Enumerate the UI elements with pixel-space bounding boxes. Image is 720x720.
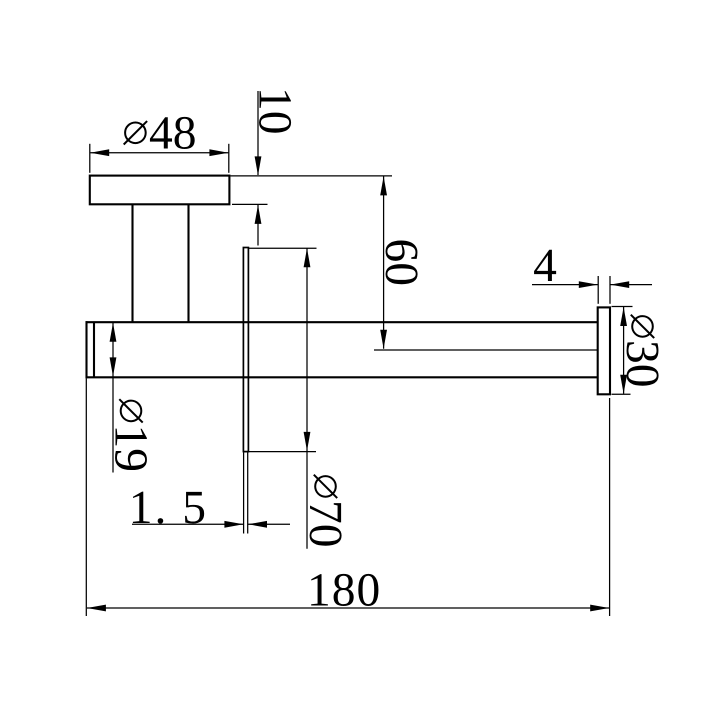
dimension 10 label (249, 87, 301, 135)
bar centerline (374, 349, 598, 351)
dimension O70 label (299, 475, 351, 548)
dimension 60 arrowheads (380, 176, 387, 348)
end cap (O30) (598, 307, 610, 394)
mounting stem (133, 205, 189, 322)
dimension O30 label (616, 315, 668, 388)
dimension 10 arrowheads (255, 156, 262, 224)
svg-text:180: 180 (307, 565, 381, 617)
middle disc (flange plate O70) (243, 248, 248, 452)
extension line from flange top (231, 175, 393, 177)
dimension 1.5 arrowheads (224, 521, 267, 528)
svg-text:48: 48 (149, 107, 197, 159)
svg-text:1. 5: 1. 5 (129, 482, 208, 534)
dimension 60 label (375, 239, 427, 287)
wall flange (top plate) outline (90, 176, 230, 205)
dimension O19 arrowheads (110, 323, 117, 377)
dimension 180 lines (86, 379, 609, 617)
dimension O70 arrowheads (304, 248, 311, 451)
dimension O48 lines (90, 144, 229, 173)
svg-text:60: 60 (375, 239, 427, 287)
dimension O30 lines (612, 307, 633, 395)
svg-text:4: 4 (533, 240, 557, 292)
dimension O48 arrowheads (90, 149, 228, 156)
dimension 60 line (383, 176, 385, 348)
dimension O48 label (124, 107, 197, 159)
dimension O30 arrowheads (620, 307, 627, 394)
dimension O70 lines (244, 248, 317, 549)
svg-text:10: 10 (249, 87, 301, 135)
dimension O19 label (105, 399, 157, 472)
svg-text:19: 19 (105, 425, 157, 473)
horizontal bar (roll holder rail) (86, 321, 598, 378)
dimension 4 arrowheads (579, 281, 629, 288)
dimension 180 arrowheads (87, 605, 609, 612)
dimension 10 lines (232, 91, 268, 246)
dimension 1.5 lines (132, 453, 290, 534)
svg-text:70: 70 (299, 500, 351, 548)
dimension 4 lines (532, 276, 652, 304)
svg-text:30: 30 (616, 340, 668, 388)
dimension O19 line (112, 323, 114, 473)
